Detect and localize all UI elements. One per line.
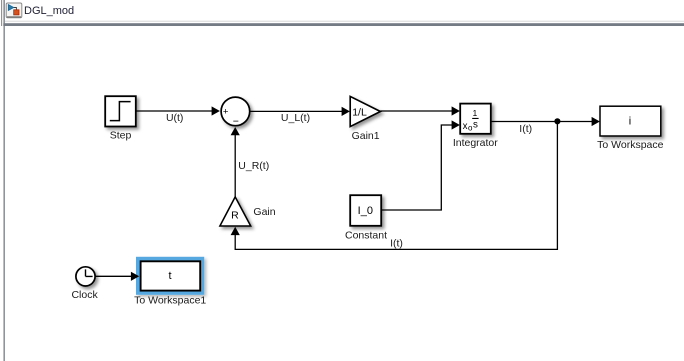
svg-text:To Workspace: To Workspace <box>597 139 663 151</box>
svg-text:x: x <box>463 121 468 132</box>
Step block <box>105 96 136 126</box>
window left inner vertical border <box>3 0 5 361</box>
window left outer border line <box>1 0 2 26</box>
clock hands <box>86 269 93 276</box>
wire Gain apex -> Sum bottom <box>234 135 236 197</box>
wire Integrator -> junction -> To Workspace <box>491 121 593 123</box>
svg-text:I(t): I(t) <box>390 238 403 250</box>
svg-text:I(t): I(t) <box>519 123 532 135</box>
Clock block <box>76 267 95 286</box>
svg-text:i: i <box>629 115 631 127</box>
To Workspace block <box>600 106 661 136</box>
svg-text:R: R <box>231 209 239 221</box>
tab bar dark separator <box>3 23 684 26</box>
svg-text:Integrator: Integrator <box>453 137 498 149</box>
wire Constant -> Integrator input 2 <box>382 125 453 210</box>
svg-text:U_L(t): U_L(t) <box>281 112 310 124</box>
svg-text:To Workspace1: To Workspace1 <box>134 295 206 307</box>
Constant block <box>350 195 381 226</box>
tab bar light separator <box>5 21 684 22</box>
To Workspace1 selection frame <box>136 257 204 295</box>
svg-text:Clock: Clock <box>71 289 98 301</box>
svg-text:Constant: Constant <box>345 229 387 241</box>
wire Sum -> Gain1 <box>250 110 342 112</box>
Integrator block <box>460 104 491 134</box>
step icon <box>110 102 131 121</box>
svg-text:I_0: I_0 <box>358 205 373 217</box>
svg-text:1: 1 <box>473 108 478 118</box>
svg-text:+: + <box>223 107 229 118</box>
svg-text:U_R(t): U_R(t) <box>238 160 269 172</box>
tab icon (Simulink model icon) <box>6 3 22 18</box>
sum block <box>221 97 250 126</box>
svg-text:o: o <box>468 124 473 133</box>
svg-text:Gain: Gain <box>253 206 275 218</box>
svg-text:t: t <box>168 270 171 282</box>
To Workspace1 block <box>141 261 201 290</box>
Gain block (R, triangle up) <box>220 197 251 226</box>
svg-text:−: − <box>233 115 239 127</box>
junction node <box>554 118 560 124</box>
svg-text:1/L: 1/L <box>352 106 367 118</box>
svg-text:U(t): U(t) <box>166 112 184 124</box>
wire Gain1 -> Integrator input 1 <box>380 110 452 112</box>
feedback wire junction -> down -> left -> up into Gain <box>235 122 557 250</box>
svg-text:DGL_mod: DGL_mod <box>24 5 74 17</box>
svg-text:Gain1: Gain1 <box>352 130 380 142</box>
Gain1 block (triangle) <box>350 96 380 126</box>
wire Clock -> To Workspace1 <box>95 275 131 277</box>
svg-text:Step: Step <box>110 130 132 142</box>
wire Step -> Sum <box>136 110 213 112</box>
svg-text:s: s <box>473 120 478 131</box>
